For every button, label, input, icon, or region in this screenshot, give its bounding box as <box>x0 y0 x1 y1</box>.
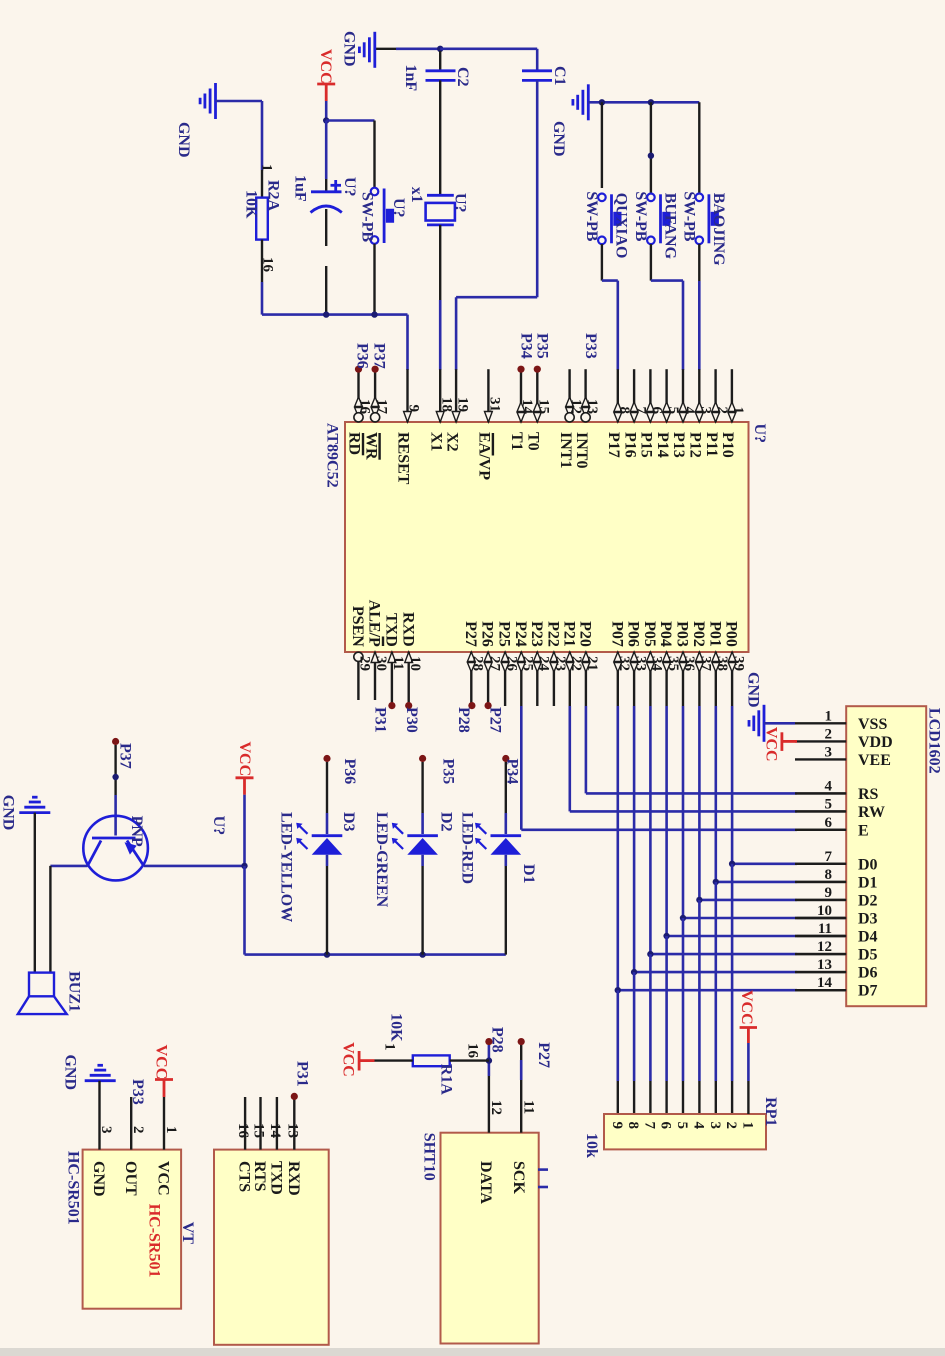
ground GND (buzzer) <box>19 811 50 814</box>
svg-text:GND: GND <box>550 121 567 157</box>
capacitor C1 <box>522 69 552 72</box>
svg-text:U?: U? <box>341 177 358 197</box>
wire <box>326 762 328 813</box>
pin 37 <box>698 652 700 706</box>
pin 8 <box>617 369 619 422</box>
wire <box>325 101 328 121</box>
wire <box>601 102 603 188</box>
svg-text:18: 18 <box>438 397 454 412</box>
node D0 junction <box>729 861 735 867</box>
svg-text:P26: P26 <box>479 621 496 647</box>
svg-text:P03: P03 <box>674 621 691 647</box>
svg-text:EA/VP: EA/VP <box>476 432 493 480</box>
LCD pin 13 D6 <box>795 971 846 973</box>
svg-text:U?: U? <box>452 193 469 213</box>
wire E <box>520 706 523 830</box>
pin 22 <box>569 652 571 706</box>
svg-text:P36: P36 <box>341 759 358 785</box>
svg-text:35: 35 <box>665 656 681 671</box>
svg-text:P13: P13 <box>670 432 687 458</box>
node D1 junction <box>713 879 719 885</box>
pin 5 <box>665 369 667 422</box>
svg-text:P35: P35 <box>440 759 457 785</box>
node junction C2 top rail <box>437 46 443 52</box>
svg-text:P31: P31 <box>372 707 389 733</box>
svg-text:21: 21 <box>584 656 600 671</box>
svg-text:BAOJING: BAOJING <box>710 193 727 266</box>
svg-text:TXD: TXD <box>268 1161 285 1195</box>
svg-text:P10: P10 <box>719 432 736 458</box>
LCD pin 2 VDD <box>795 740 846 742</box>
svg-text:11: 11 <box>520 1100 536 1114</box>
svg-text:P37: P37 <box>371 343 388 369</box>
wire <box>243 795 246 866</box>
svg-text:RW: RW <box>858 804 885 821</box>
serial pin 13 RXD <box>293 1097 295 1150</box>
pin 12 <box>568 369 570 422</box>
pin 33 <box>633 652 635 706</box>
svg-text:D2: D2 <box>858 892 878 909</box>
svg-text:GND: GND <box>744 672 761 708</box>
pin 34 <box>649 652 651 706</box>
svg-text:27: 27 <box>486 656 502 672</box>
net label P36 <box>355 366 362 373</box>
HC-SR501 pin 3 GND <box>98 1081 100 1150</box>
net label P37 (base) <box>112 738 119 745</box>
svg-text:D6: D6 <box>858 965 878 982</box>
net label P34 <box>517 366 524 373</box>
svg-text:16: 16 <box>235 1123 251 1139</box>
wire <box>601 244 603 281</box>
svg-text:VSS: VSS <box>858 716 887 733</box>
svg-text:24: 24 <box>536 656 552 672</box>
svg-text:X1: X1 <box>427 432 444 452</box>
node <box>419 951 425 957</box>
wire to RP1 <box>649 954 652 1081</box>
svg-text:5: 5 <box>825 796 833 812</box>
net label P27 <box>518 1038 525 1045</box>
net label P28 <box>468 702 475 709</box>
node <box>324 951 330 957</box>
pin 6 <box>649 369 651 422</box>
svg-text:RD: RD <box>346 432 363 455</box>
svg-text:8: 8 <box>625 1122 641 1130</box>
svg-text:P04: P04 <box>657 621 674 647</box>
LCD pin 12 D5 <box>795 953 846 955</box>
wire D3 bus <box>682 706 685 918</box>
net label P28 <box>485 1038 492 1045</box>
sensor SHT10 <box>441 1133 539 1344</box>
svg-text:13: 13 <box>817 957 832 973</box>
svg-text:P30: P30 <box>403 707 420 733</box>
node <box>241 863 247 869</box>
svg-text:P36: P36 <box>354 343 371 369</box>
wire <box>505 762 507 813</box>
pin 14 <box>520 369 522 422</box>
pin 38 <box>715 652 717 706</box>
LCD pin 5 RW <box>795 810 846 812</box>
svg-text:P12: P12 <box>687 432 704 458</box>
svg-text:P05: P05 <box>641 621 658 647</box>
LCD pin 4 RS <box>795 792 846 794</box>
svg-text:39: 39 <box>730 656 746 671</box>
svg-text:28: 28 <box>470 656 486 671</box>
LCD pin 1 VSS <box>795 722 846 724</box>
wire D1 bus <box>714 706 717 882</box>
buzzer BUZ1 <box>29 973 54 997</box>
svg-text:VEE: VEE <box>858 752 891 769</box>
svg-text:7: 7 <box>632 407 648 415</box>
svg-text:RESET: RESET <box>395 432 412 485</box>
wire <box>114 745 116 795</box>
wire to RP1 <box>682 918 685 1081</box>
wire VCC rail to LEDs <box>243 866 246 955</box>
svg-text:P33: P33 <box>582 333 599 359</box>
resistor R1A 10K <box>413 1055 450 1066</box>
svg-text:OUT: OUT <box>122 1161 139 1196</box>
microcontroller U1 AT89C52 <box>345 422 749 652</box>
svg-text:RXD: RXD <box>399 612 416 647</box>
svg-text:P21: P21 <box>560 621 577 647</box>
pin 9 <box>406 369 408 422</box>
svg-text:DATA: DATA <box>477 1161 494 1204</box>
HC-SR501 pin 2 OUT <box>130 1097 132 1150</box>
svg-text:BUZ1: BUZ1 <box>66 971 83 1012</box>
pin 11 <box>391 652 393 706</box>
wire emitter to VCC node <box>144 865 245 868</box>
svg-text:HC-SR501: HC-SR501 <box>64 1151 81 1225</box>
LED D1 LED-RED <box>491 834 522 837</box>
wire <box>440 47 537 50</box>
LCD pin 10 D3 <box>795 917 846 919</box>
svg-text:34: 34 <box>649 656 665 672</box>
pin 10 <box>408 652 410 706</box>
svg-text:6: 6 <box>825 815 833 831</box>
svg-text:D1: D1 <box>520 864 537 884</box>
wire D2 bus <box>698 706 701 900</box>
svg-text:QUXIAO: QUXIAO <box>613 193 630 259</box>
wire to RP1 <box>731 864 734 1081</box>
svg-text:10K: 10K <box>387 1013 404 1042</box>
net label P31 <box>291 1093 298 1100</box>
pin 19 <box>455 369 457 422</box>
wire <box>34 813 36 973</box>
net label P36 <box>323 755 330 762</box>
svg-text:3: 3 <box>98 1126 114 1134</box>
ground GND3 (buttons) <box>587 84 590 120</box>
resistor R2A 10K <box>261 170 263 198</box>
pin 15 <box>536 369 538 422</box>
svg-text:P27: P27 <box>462 621 479 647</box>
svg-text:X2: X2 <box>443 432 460 452</box>
svg-text:INT0: INT0 <box>573 432 590 468</box>
svg-text:VCC: VCC <box>155 1161 172 1196</box>
svg-text:1uF: 1uF <box>292 175 309 202</box>
node D3 junction <box>680 915 686 921</box>
svg-text:P11: P11 <box>703 432 720 457</box>
wire <box>326 119 374 122</box>
wire <box>698 244 700 281</box>
HC-SR501 pin 1 VCC <box>163 1097 165 1150</box>
node <box>371 311 377 317</box>
pin 18 <box>439 369 441 422</box>
svg-text:2: 2 <box>723 1122 739 1130</box>
pin 25 <box>520 652 522 706</box>
svg-text:14: 14 <box>267 1123 283 1139</box>
LCD pin 3 VEE <box>795 758 846 760</box>
wire to RP1 <box>714 882 717 1081</box>
serial pin 15 RTS <box>259 1097 261 1150</box>
svg-text:GND: GND <box>0 795 17 831</box>
LCD pin 8 D1 <box>795 881 846 883</box>
svg-text:VDD: VDD <box>858 734 893 751</box>
wire <box>373 244 375 315</box>
svg-text:16: 16 <box>357 399 373 415</box>
pin 23 <box>553 652 555 706</box>
svg-text:11: 11 <box>818 921 832 937</box>
LCD module LCD1602 <box>846 706 926 1006</box>
wire <box>326 855 329 866</box>
serial pin 16 CTS <box>244 1097 246 1150</box>
node D6 junction <box>631 969 637 975</box>
svg-text:P27: P27 <box>487 707 504 733</box>
wire <box>536 80 539 297</box>
LCD pin 11 D4 <box>795 935 846 937</box>
svg-text:BUFANG: BUFANG <box>662 193 679 260</box>
svg-text:P07: P07 <box>608 621 625 647</box>
svg-text:P15: P15 <box>638 432 655 458</box>
ground GND2 <box>214 83 217 119</box>
svg-text:P34: P34 <box>517 333 534 359</box>
svg-text:SW-PB: SW-PB <box>680 191 697 241</box>
svg-text:5: 5 <box>674 1122 690 1130</box>
svg-text:U?: U? <box>751 424 768 444</box>
wire <box>650 244 652 281</box>
svg-text:ALE/P: ALE/P <box>366 600 383 647</box>
svg-text:1: 1 <box>259 164 275 172</box>
SHT10 pin 11 SCK <box>520 1080 522 1133</box>
wire <box>375 48 396 50</box>
node <box>112 774 118 780</box>
wire <box>421 855 424 866</box>
wire to RP1 <box>633 972 636 1081</box>
svg-text:LED-GREEN: LED-GREEN <box>373 812 390 908</box>
svg-text:P31: P31 <box>294 1061 311 1087</box>
svg-text:SW-PB: SW-PB <box>583 191 600 241</box>
svg-text:P28: P28 <box>455 707 472 733</box>
crystal X1 (U?) <box>427 194 454 197</box>
svg-text:P25: P25 <box>496 621 513 647</box>
svg-text:R1A: R1A <box>437 1064 454 1096</box>
LED D2 LED-GREEN <box>407 834 438 837</box>
node <box>599 99 605 105</box>
push button SW-PB BAOJING <box>696 194 704 202</box>
wire <box>588 101 699 104</box>
pin 32 <box>617 652 619 706</box>
net label P34 <box>502 755 509 762</box>
svg-text:P06: P06 <box>625 621 642 647</box>
wire D7 bus <box>616 706 619 990</box>
pin 26 <box>504 652 506 706</box>
svg-text:6: 6 <box>649 407 665 415</box>
svg-text:10: 10 <box>817 903 832 919</box>
pin 29 <box>357 652 359 700</box>
svg-text:GND: GND <box>341 31 358 67</box>
svg-text:32: 32 <box>616 656 632 671</box>
net label P31 <box>388 702 395 709</box>
pin 1 <box>731 369 733 422</box>
ground GND1 <box>373 32 376 68</box>
push button SW-PB U? (reset) <box>371 188 379 196</box>
node D7 junction <box>615 987 621 993</box>
capacitor C2 <box>439 51 441 70</box>
LCD pin 6 E <box>795 829 846 831</box>
svg-text:TXD: TXD <box>383 613 400 647</box>
svg-text:P27: P27 <box>535 1042 552 1068</box>
resistor network RP1 10k <box>604 1114 766 1149</box>
svg-text:VCC: VCC <box>762 727 779 762</box>
svg-text:VCC: VCC <box>317 49 334 84</box>
svg-text:9: 9 <box>609 1122 625 1130</box>
capacitor 1uF (U?) <box>325 179 327 191</box>
pin 30 <box>374 652 376 700</box>
svg-text:D7: D7 <box>858 983 878 1000</box>
svg-text:CTS: CTS <box>236 1161 253 1192</box>
svg-text:1nF: 1nF <box>402 65 419 92</box>
svg-text:SW-PB: SW-PB <box>359 192 376 242</box>
node D5 junction <box>647 951 653 957</box>
node <box>486 1057 492 1063</box>
svg-text:16: 16 <box>465 1043 481 1059</box>
wire <box>450 1059 489 1061</box>
wire D5 bus <box>649 706 652 954</box>
wire <box>421 762 423 813</box>
LCD pin 9 D2 <box>795 899 846 901</box>
svg-text:7: 7 <box>825 849 833 865</box>
svg-text:9: 9 <box>406 405 422 413</box>
wire <box>325 121 328 180</box>
LCD pin 7 D0 <box>795 863 846 865</box>
svg-text:P28: P28 <box>489 1027 506 1053</box>
svg-text:P24: P24 <box>512 621 529 647</box>
svg-text:PSEN: PSEN <box>349 606 366 647</box>
svg-text:P14: P14 <box>654 432 671 458</box>
svg-text:3: 3 <box>825 744 833 760</box>
pin 31 <box>487 369 489 422</box>
wire to RP1 <box>698 900 701 1081</box>
pin 24 <box>536 652 538 706</box>
svg-text:7: 7 <box>642 1122 658 1130</box>
svg-text:VT: VT <box>179 1222 196 1245</box>
svg-text:1: 1 <box>825 708 833 724</box>
svg-text:C2: C2 <box>454 67 471 87</box>
svg-text:2: 2 <box>130 1126 146 1134</box>
LCD pin 14 D7 <box>795 989 846 991</box>
svg-text:RP1: RP1 <box>762 1097 779 1126</box>
pin 21 <box>585 652 587 706</box>
pin 36 <box>682 652 684 706</box>
pin 2 <box>714 369 716 422</box>
svg-text:1: 1 <box>740 1122 756 1130</box>
svg-text:15: 15 <box>536 399 552 414</box>
node <box>323 311 329 317</box>
svg-text:12: 12 <box>488 1100 504 1115</box>
svg-text:LCD1602: LCD1602 <box>926 708 943 774</box>
svg-text:11: 11 <box>390 656 406 670</box>
svg-text:P33: P33 <box>129 1079 146 1105</box>
pin 27 <box>487 652 489 706</box>
svg-text:30: 30 <box>373 656 389 671</box>
svg-text:VCC: VCC <box>153 1045 170 1080</box>
svg-text:VCC: VCC <box>339 1042 356 1077</box>
decoration dashes <box>538 1168 548 1171</box>
svg-text:D3: D3 <box>340 812 357 832</box>
node VCC-reset junction <box>323 117 329 123</box>
node D2 junction <box>696 897 702 903</box>
wire <box>488 1045 491 1076</box>
svg-text:4: 4 <box>691 1122 707 1130</box>
svg-text:4: 4 <box>825 778 833 794</box>
node D4 junction <box>663 933 669 939</box>
node <box>648 153 654 159</box>
svg-text:U?: U? <box>210 816 227 836</box>
svg-text:GND: GND <box>62 1055 79 1091</box>
svg-text:P23: P23 <box>528 621 545 647</box>
push button SW-PB BUFANG <box>647 194 655 202</box>
net label P30 <box>405 702 412 709</box>
net label P27 <box>485 702 492 709</box>
LED D3 LED-YELLOW <box>312 834 343 837</box>
svg-text:29: 29 <box>357 656 373 671</box>
svg-text:8: 8 <box>825 867 833 883</box>
svg-text:17: 17 <box>373 399 389 415</box>
svg-text:RS: RS <box>858 786 879 803</box>
svg-text:10k: 10k <box>583 1133 600 1158</box>
wire <box>650 102 652 193</box>
svg-text:P22: P22 <box>545 621 562 647</box>
svg-text:10: 10 <box>407 656 423 671</box>
svg-text:RTS: RTS <box>251 1161 268 1192</box>
svg-text:C1: C1 <box>551 66 568 86</box>
svg-text:T1: T1 <box>508 432 525 451</box>
pin 35 <box>665 652 667 706</box>
svg-text:R2A: R2A <box>265 180 282 212</box>
page edge band <box>0 1348 945 1356</box>
svg-text:1: 1 <box>163 1126 179 1134</box>
svg-text:E: E <box>858 822 869 839</box>
svg-text:D0: D0 <box>858 856 878 873</box>
ground GND (LCD VSS) <box>763 705 766 742</box>
svg-text:6: 6 <box>658 1122 674 1130</box>
svg-text:D2: D2 <box>437 812 454 832</box>
svg-text:10K: 10K <box>243 190 260 219</box>
wire RW <box>568 706 571 811</box>
svg-text:36: 36 <box>681 656 697 672</box>
svg-text:VCC: VCC <box>236 742 253 777</box>
svg-text:P17: P17 <box>605 432 622 458</box>
svg-text:VCC: VCC <box>738 990 755 1025</box>
svg-text:1: 1 <box>382 1043 398 1051</box>
wire <box>747 1043 750 1081</box>
svg-text:1: 1 <box>730 407 746 415</box>
svg-text:INT1: INT1 <box>557 432 574 468</box>
wire <box>698 102 700 193</box>
svg-text:5: 5 <box>665 407 681 415</box>
svg-text:WR: WR <box>362 432 379 460</box>
pin 16 <box>357 369 359 422</box>
svg-text:GND: GND <box>175 122 192 158</box>
svg-text:D1: D1 <box>858 874 878 891</box>
